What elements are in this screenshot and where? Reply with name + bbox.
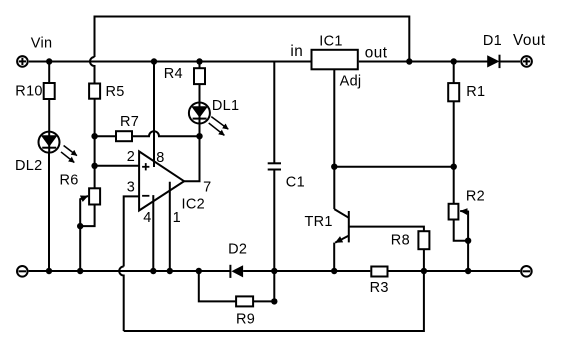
wire R8 to bottom rail: [423, 249, 425, 271]
svg-text:R2: R2: [466, 189, 485, 205]
wire R7 right with hop over pin-8 line: [132, 131, 200, 136]
node junction rail/C1: [271, 268, 277, 274]
node junction R2 bottom/wiper: [465, 238, 471, 244]
wire op-amp minus input to feedback loop: [124, 196, 139, 266]
wire Vin to R4: [199, 62, 201, 69]
svg-text:IC2: IC2: [182, 197, 205, 213]
node junction Adj/mid wire: [331, 164, 337, 170]
svg-text:R7: R7: [120, 114, 139, 130]
wire pin 8 from Vin to op-amp: [153, 62, 155, 168]
LED DL2: [39, 132, 77, 163]
terminal minus right: [521, 266, 532, 277]
wire R2 bottom jog: [454, 220, 468, 241]
resistor R8: [418, 231, 429, 249]
wire hop of top-rail vertical over Vin wire: [90, 57, 95, 83]
wire IC1 Adj down: [333, 70, 335, 167]
svg-text:IC1: IC1: [319, 34, 342, 50]
resistor R9: [236, 296, 253, 306]
node junction Vin/pin8: [151, 58, 157, 64]
resistor R6 potentiometer: [80, 188, 100, 226]
svg-text:DL2: DL2: [15, 158, 43, 174]
terminal minus left: [17, 266, 28, 277]
svg-text:D2: D2: [228, 242, 247, 258]
node junction rail/DL2: [46, 268, 52, 274]
svg-text:8: 8: [156, 150, 164, 166]
transistor TR1: [334, 167, 349, 271]
wire hop of pin-3 line over bottom rail: [119, 267, 124, 332]
svg-text:7: 7: [203, 179, 211, 195]
diode D1: [487, 55, 520, 68]
node junction Vin/R10: [46, 58, 52, 64]
svg-text:out: out: [365, 44, 388, 61]
svg-text:DL1: DL1: [212, 98, 240, 114]
resistor R4: [194, 68, 205, 84]
wire R6 bottom terminal jog: [80, 205, 94, 227]
wire bottom rail left segment: [29, 270, 231, 272]
resistor R3: [371, 267, 387, 277]
svg-text:R1: R1: [466, 84, 485, 100]
node junction rail/pin4: [150, 268, 156, 274]
op-amp minus sign: [142, 195, 149, 197]
node junction R6 bottom/wiper: [77, 223, 83, 229]
node junction rail/R8/loop: [421, 268, 427, 274]
wire IC1 out to D1: [359, 61, 488, 63]
node junction R5/op-amp plus input: [91, 163, 97, 169]
svg-text:R5: R5: [106, 84, 125, 100]
wire bottom rail middle segment: [243, 270, 370, 272]
node junction rail/R9 branch: [196, 268, 202, 274]
node junction mid/R1/R2: [451, 164, 457, 170]
svg-text:TR1: TR1: [305, 214, 333, 230]
wire R9 branch from rail: [199, 271, 236, 301]
svg-text:1: 1: [173, 210, 181, 226]
node junction rail/R6 wiper: [77, 268, 83, 274]
diode D2: [230, 265, 243, 278]
LED DL1: [189, 103, 228, 136]
svg-text:C1: C1: [286, 175, 305, 191]
wire bottom rail right segment: [389, 270, 521, 272]
wire TR1 base to R8: [349, 227, 424, 232]
wire Vin to R10: [48, 62, 50, 84]
svg-text:D1: D1: [483, 33, 502, 49]
svg-text:R10: R10: [15, 84, 43, 100]
svg-text:R3: R3: [370, 280, 389, 296]
wire mid horizontal Adj to R1/R2: [334, 166, 453, 168]
svg-text:3: 3: [127, 179, 135, 195]
resistor R2 potentiometer: [449, 204, 469, 241]
resistor R7: [116, 131, 132, 141]
resistor R1: [448, 83, 459, 101]
wire mid junction to R2: [453, 167, 455, 204]
wire C1 junction down to R9 right: [273, 271, 275, 301]
node junction out/top rail: [406, 58, 412, 64]
svg-text:in: in: [290, 43, 303, 60]
svg-text:R4: R4: [164, 66, 183, 82]
svg-text:R8: R8: [391, 233, 410, 249]
node junction rail/TR1 emitter: [331, 268, 337, 274]
wire R2 to bottom rail: [467, 241, 469, 271]
svg-text:R9: R9: [236, 312, 255, 328]
svg-text:Vin: Vin: [31, 36, 53, 52]
svg-text:R6: R6: [60, 173, 79, 189]
wire op-amp plus input: [95, 165, 140, 167]
wire top rail: [95, 17, 410, 62]
terminal Vin plus: [17, 56, 28, 67]
terminal Vout plus: [521, 56, 532, 67]
node junction DL1/R7/output: [196, 133, 202, 139]
wire bottom feedback loop: [124, 271, 424, 331]
resistor R10: [44, 83, 55, 99]
node junction Vin/R4: [196, 58, 202, 64]
wire R5 bottom to R6: [94, 99, 96, 189]
wire DL2 to bottom rail: [48, 153, 50, 271]
wire R4 to DL1: [199, 84, 201, 136]
wire pin 1 to bottom rail: [169, 182, 171, 271]
svg-text:4: 4: [143, 210, 151, 226]
node junction R9/C1 branch: [271, 298, 277, 304]
node junction rail/R2: [465, 268, 471, 274]
wire pin 4 to bottom rail: [152, 195, 154, 271]
wire R9 right to junction: [253, 300, 274, 302]
node junction rail/pin1: [167, 268, 173, 274]
resistor R5: [89, 84, 100, 99]
op-amp IC2 triangle: [139, 151, 184, 210]
capacitor C1: [268, 62, 281, 272]
regulator IC1: [312, 50, 358, 70]
op-amp plus sign: [142, 163, 149, 170]
svg-text:2: 2: [127, 149, 135, 165]
wire R10 to DL2: [48, 99, 50, 153]
svg-text:Adj: Adj: [340, 74, 362, 90]
wire Vin horizontal: [29, 61, 311, 63]
node junction out/R1: [451, 58, 457, 64]
wire R6 wiper to bottom rail: [79, 226, 81, 271]
wire out to R1: [453, 62, 455, 84]
wire DL1 junction down to op-amp output corner: [184, 136, 199, 181]
svg-text:Vout: Vout: [513, 32, 546, 49]
wire R7 left: [95, 135, 116, 137]
wire R1 to mid junction: [453, 101, 455, 166]
node junction R5/R7: [91, 133, 97, 139]
